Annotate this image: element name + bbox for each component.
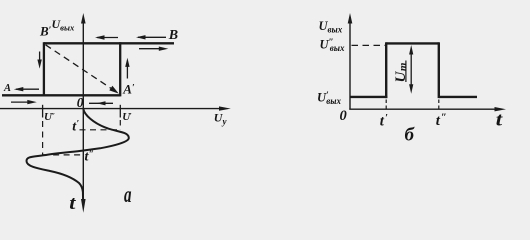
dashed horizontal at t''	[43, 154, 82, 156]
dashed vertical below U'	[119, 120, 121, 130]
output pulse: low segment left	[350, 96, 387, 98]
Um underline	[405, 61, 407, 83]
hysteresis loop bottom line A-A'	[2, 94, 120, 96]
tick U' on Uy axis	[119, 105, 121, 118]
left arrow above top line (outer, near B)	[138, 36, 166, 38]
right v-axis arrowhead	[348, 13, 353, 24]
svg-text:б: б	[405, 124, 416, 145]
input sine wave vs t	[27, 109, 129, 201]
hysteresis loop left side	[43, 42, 45, 96]
left t-axis bottom arrowhead	[81, 199, 86, 213]
dashed tick below t''	[438, 100, 440, 110]
svg-text:A: A	[3, 83, 11, 94]
svg-text:0: 0	[77, 95, 84, 110]
pulse rising edge at t'	[385, 42, 387, 98]
dashed level U''vyh	[352, 44, 386, 46]
dashed diagonal B'-A'	[46, 45, 114, 90]
left diagram horizontal axis Uy	[0, 108, 223, 110]
dashed tick below t'	[385, 100, 387, 110]
svg-text:а: а	[124, 183, 132, 208]
Uy axis arrowhead	[219, 106, 231, 110]
dashed horizontal at t'	[80, 129, 121, 131]
up arrow on loop right side	[126, 65, 128, 79]
pulse falling edge at t''	[438, 42, 440, 98]
hysteresis loop top line B'-B	[44, 42, 174, 44]
hysteresis loop right side	[119, 42, 121, 96]
pulse top	[386, 42, 439, 44]
left axis top arrowhead	[81, 13, 86, 24]
right diagram vertical axis	[349, 17, 351, 110]
right arrow below A line	[11, 101, 29, 103]
diagonal arrowhead at A'	[109, 86, 119, 94]
t axis arrowhead	[495, 107, 507, 111]
left arrow above top line (inner)	[97, 37, 118, 39]
left arrow between O and U'	[89, 102, 113, 104]
svg-text:B: B	[168, 28, 178, 43]
right arrow below top line	[139, 48, 160, 50]
low segment right	[439, 96, 477, 98]
tick U'' on Uy axis	[42, 105, 44, 118]
down arrow on loop left side	[39, 52, 41, 62]
svg-text:0: 0	[340, 108, 347, 124]
right diagram horizontal axis t	[349, 108, 498, 110]
left arrow above A line	[16, 88, 39, 90]
dashed vertical below U''	[42, 121, 44, 156]
Um double arrow	[410, 51, 412, 87]
left diagram vertical axis Uvyh/t	[82, 17, 84, 205]
